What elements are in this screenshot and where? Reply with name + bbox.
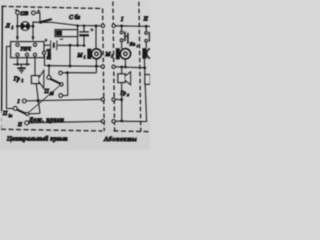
svg-text:Деж. прием: Деж. прием <box>28 117 64 123</box>
amplifier terminal top-right <box>33 43 36 46</box>
node fuse bottom <box>76 44 79 47</box>
wire with plug arrow down to amplifier, right <box>32 26 34 37</box>
wire Gr2 bottom down to line3 <box>121 83 123 121</box>
wire Kn1 to M2 <box>121 42 123 49</box>
terminal +12V <box>32 11 36 15</box>
svg-text:Центральный пульт: Центральный пульт <box>6 136 68 143</box>
wires amp bottom to ground bus <box>17 58 19 65</box>
wire M1 top to bus <box>95 26 97 49</box>
wire line2 section I <box>115 67 145 68</box>
wire riser section II speaker bottom to line3 <box>145 84 146 121</box>
node mid line Gr2 <box>120 98 123 101</box>
wire M2 bottom to line2 <box>124 59 126 67</box>
terminal line2 at central border <box>101 65 104 68</box>
svg-text:2: 2 <box>111 55 113 59</box>
microphone M2 <box>116 48 120 59</box>
node line2 left <box>48 64 51 67</box>
wire mid line contact I to border <box>26 99 102 101</box>
wire amp out left to P1a bus <box>7 46 14 108</box>
node bus Kn2 <box>145 25 148 28</box>
wire mid junction riser down <box>67 73 69 96</box>
switch V1 contact node <box>39 21 42 24</box>
node lamp left <box>16 25 19 28</box>
fuse rectangle <box>77 26 79 46</box>
switch V1 lever <box>41 19 52 22</box>
switch P1a pivot <box>13 106 17 110</box>
wire P1b pivot lead <box>48 66 50 76</box>
terminal bus at central border <box>101 24 104 27</box>
switch P1b contact I <box>59 71 63 75</box>
wire Kn2 to M3 <box>145 42 147 48</box>
svg-text:Кн: Кн <box>129 42 136 47</box>
wire Gr1 bottom down to P1a arm wire <box>36 84 40 114</box>
switch P1b pivot <box>47 75 51 79</box>
plus sign at 12V <box>37 9 41 13</box>
svg-text:1: 1 <box>12 26 14 30</box>
svg-text:1: 1 <box>22 79 24 83</box>
switch P1a contact II <box>25 121 29 125</box>
wire line3 section I to section II riser <box>115 120 146 122</box>
button Kn1 <box>121 26 123 31</box>
wire amp input down to P1b pivot <box>45 55 50 66</box>
battery B1 wire <box>44 44 50 46</box>
loudspeaker Gr3 (section II, cut) <box>145 75 150 85</box>
amplifier terminal top-left <box>16 43 19 46</box>
wire P1b contact I to mid junction <box>62 72 67 74</box>
wire mid junction to M1 riser <box>67 72 96 74</box>
capacitor plus sign <box>90 28 93 31</box>
node line3 Gr2 <box>120 120 123 123</box>
node cap bottom <box>83 44 86 47</box>
dashed border: central console box top (dash-dot) <box>2 6 103 8</box>
wire from +12V terminal to switch <box>35 13 40 22</box>
wire mid line section I to Gr2 wire <box>115 99 121 101</box>
switch P1a arm tip <box>26 112 29 115</box>
node fuse top <box>76 24 79 27</box>
button Kn2 (section II, cut) <box>145 26 147 31</box>
node mid line Gr1 riser <box>37 99 40 102</box>
node lamp right <box>32 25 35 28</box>
node ground bus <box>16 63 19 66</box>
mechanical link P1a-P1b <box>28 85 60 113</box>
switch P1a arm <box>17 110 26 114</box>
wire line3 (dezh. priem) to border <box>29 121 102 122</box>
loudspeaker Gr1 <box>31 76 39 84</box>
switch P1a contact I <box>22 99 26 103</box>
wire battery junction down to line2 <box>69 45 71 66</box>
svg-text:1: 1 <box>84 56 86 60</box>
wire arm tip to Gr1 riser <box>29 112 40 115</box>
node M1 bottom line2 <box>95 65 98 68</box>
wire top bus from switch to right border <box>41 22 103 26</box>
svg-text:П: П <box>2 111 8 117</box>
wire lamp left to lamp right <box>18 25 21 27</box>
svg-text:Гр: Гр <box>120 91 127 97</box>
terminal line3 at section I border <box>112 120 115 123</box>
wire lamp right up to switch node <box>33 22 41 26</box>
node mid junction <box>66 71 69 74</box>
node M3 bottom <box>143 66 146 69</box>
lamp L1 <box>21 22 30 31</box>
wire Gr2 top to line2 <box>121 67 123 74</box>
paper background <box>0 0 150 150</box>
battery minus label <box>60 38 63 40</box>
svg-text:12В: 12В <box>20 12 28 17</box>
dashed border: subscribers bottom edge <box>114 130 151 133</box>
terminal line3 at central border <box>101 120 104 123</box>
wire bus section I-II <box>115 25 150 28</box>
microphone M1 <box>87 49 91 59</box>
amplifier terminal bottom-left <box>16 53 19 56</box>
battery plus label <box>44 39 47 42</box>
svg-text:1а: 1а <box>9 114 13 118</box>
node bus Kn1 <box>120 25 123 28</box>
battery B1 plates <box>50 40 52 50</box>
node Gr2 top <box>120 66 123 69</box>
svg-text:УНЧ: УНЧ <box>20 47 31 52</box>
microphone M3 (section II, cut) <box>142 48 146 59</box>
capacitor C bl (electrolytic) <box>83 26 85 32</box>
ground symbol <box>20 64 22 68</box>
terminal mid line at section I border <box>112 98 115 101</box>
svg-text:Гр: Гр <box>13 76 20 82</box>
amplifier terminal bottom-mid <box>25 53 28 56</box>
svg-text:Вход: Вход <box>45 49 52 60</box>
dashed border: central console left edge <box>1 6 4 111</box>
loudspeaker Gr2 <box>118 74 125 83</box>
wire line2 (common) to right border <box>49 65 102 68</box>
amplifier U1 (UNCh) box <box>11 42 44 58</box>
terminal line2 at section I border <box>112 65 115 68</box>
switch P1b arm tip <box>60 83 63 86</box>
terminal -12V <box>16 11 20 15</box>
svg-text:С бл: С бл <box>69 14 80 21</box>
wire M1 bottom to line2 <box>95 59 97 66</box>
wire amp to loudspeaker Gr1 <box>34 58 36 76</box>
dashed border: subscriber section I right / II left edge <box>139 2 141 132</box>
node line2 battery riser <box>69 65 72 68</box>
wire from -12V terminal down <box>17 15 19 27</box>
dashed border: central console bottom edge <box>1 129 103 131</box>
node battery junction <box>69 44 72 47</box>
amplifier input terminal right edge <box>42 51 45 54</box>
wire P1b contact II stub <box>63 95 68 97</box>
wire line2 down to speaker Gr3 <box>144 68 146 75</box>
dashed border: subscriber section I left edge <box>113 2 115 132</box>
terminal mid line at central border <box>101 98 104 101</box>
wire M3 down to line2 <box>143 59 145 68</box>
switch P1b arm <box>50 79 60 84</box>
svg-text:П: П <box>44 89 50 95</box>
svg-text:Абоненты: Абоненты <box>103 136 137 143</box>
node M2 bottom <box>124 66 127 69</box>
node M1 top <box>95 25 98 28</box>
minus sign <box>15 9 18 11</box>
switch P1b contact II <box>59 94 63 98</box>
terminal bus at section I border <box>112 24 115 27</box>
amplifier terminal bottom-right <box>33 53 36 56</box>
node cap top <box>83 25 86 28</box>
wire with plug arrow down to amplifier, left <box>16 26 18 37</box>
dashed border: central console right edge <box>103 9 105 131</box>
